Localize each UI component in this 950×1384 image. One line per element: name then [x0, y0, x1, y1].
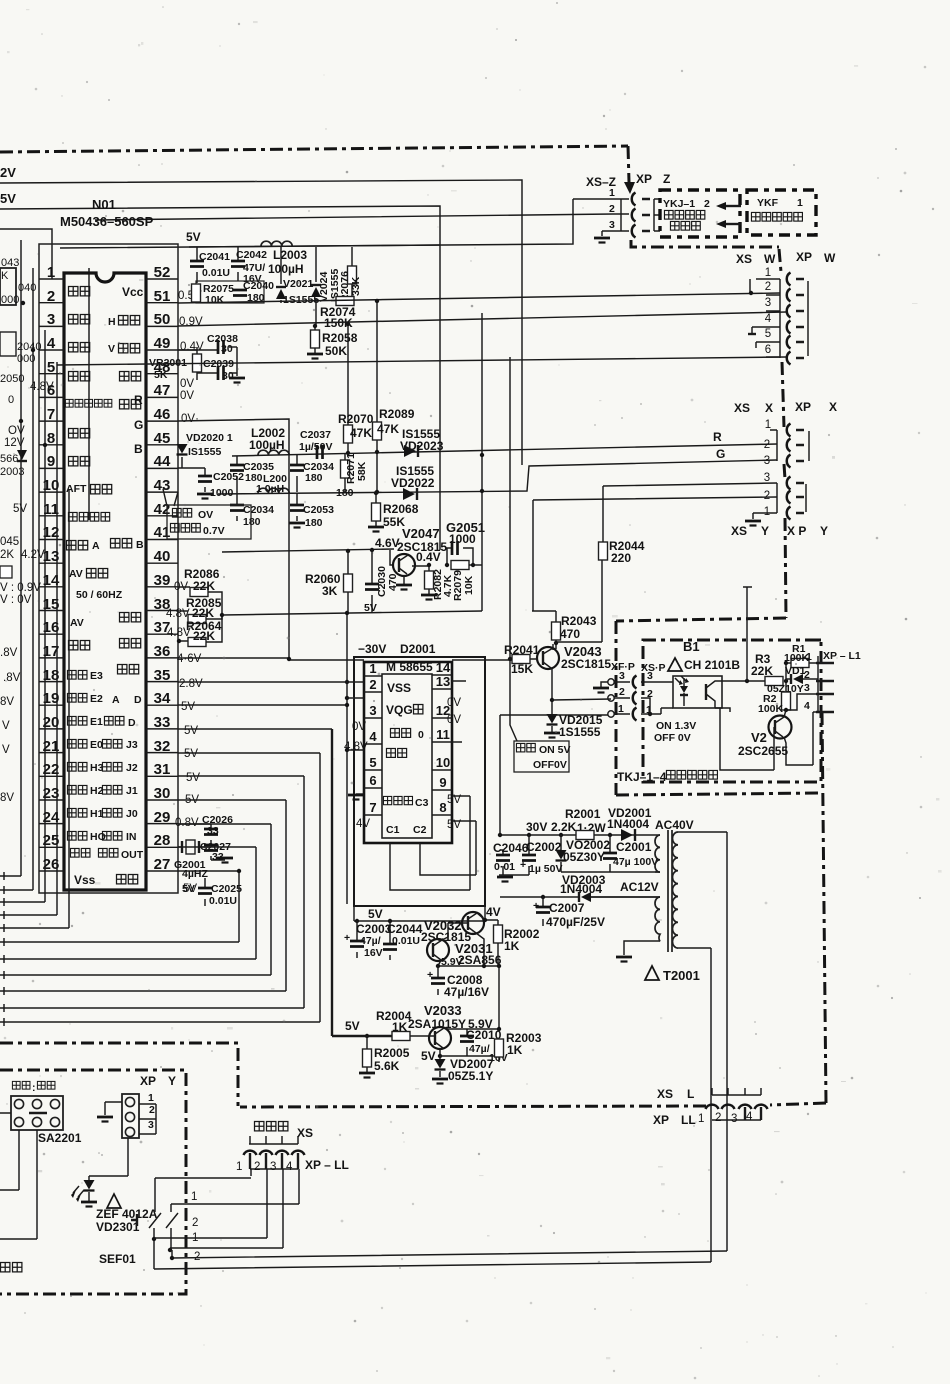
svg-text:W: W [764, 252, 776, 266]
svg-text:2: 2 [149, 1104, 155, 1116]
wire R line (to XS-X pin2) [232, 444, 777, 456]
svg-text:A: A [112, 694, 120, 706]
svg-text:11: 11 [436, 727, 450, 742]
border TKJ top [616, 618, 786, 621]
svg-text:C2040: C2040 [243, 280, 274, 292]
svg-text:47µ/: 47µ/ [469, 1043, 490, 1055]
keyboard label preset/normal [12, 1081, 30, 1089]
M58655 pin leads and numbers [364, 675, 452, 815]
svg-text:B: B [134, 442, 143, 456]
svg-text:2: 2 [764, 439, 770, 451]
svg-text:1: 1 [47, 264, 55, 281]
resistor R2064 22K [178, 615, 222, 642]
svg-text:0V·: 0V· [181, 413, 199, 425]
M58655 body [382, 674, 432, 838]
svg-text:100µH: 100µH [268, 262, 304, 276]
svg-text:50: 50 [154, 311, 171, 328]
svg-text:47µ 100V: 47µ 100V [613, 856, 658, 868]
wire 2V rail [0, 180, 522, 465]
svg-text:C2041: C2041 [199, 251, 230, 263]
svg-text:XS: XS [734, 401, 750, 415]
svg-text:2: 2 [619, 686, 625, 698]
XS-W pin4 ground stub [751, 327, 753, 333]
wire to XP-Z pin2 [95, 214, 629, 220]
N01 left pin-function labels [69, 287, 78, 296]
svg-text:OV: OV [198, 509, 213, 521]
svg-text:−30V: −30V [358, 642, 386, 656]
keyboard board label [1, 1263, 22, 1272]
zener VO2002 05Z30Y [560, 835, 562, 872]
svg-text:AC12V: AC12V [620, 880, 659, 894]
svg-text::: : [32, 1082, 36, 1094]
svg-text:000: 000 [1, 294, 19, 306]
svg-text:100µH: 100µH [249, 438, 285, 452]
svg-text:XS: XS [736, 252, 752, 266]
XP-L1 pin column [817, 656, 819, 712]
resistor R2082 4.7K [428, 565, 430, 594]
wire V2033 emitter row [440, 1056, 499, 1062]
svg-text:HO: HO [90, 831, 106, 843]
svg-text:C2042: C2042 [236, 249, 267, 261]
svg-text:.8V: .8V [0, 647, 18, 659]
svg-text:TKJ–1–4: TKJ–1–4 [617, 770, 667, 784]
transistor V2 2SC2655 [769, 716, 792, 739]
svg-text:470: 470 [387, 573, 399, 591]
capacitor C2052 [178, 468, 205, 492]
svg-text:V: V [108, 343, 115, 355]
svg-text:5V: 5V [184, 748, 198, 760]
connector XS-X pins [764, 419, 771, 467]
svg-text:R: R [713, 430, 722, 444]
wire G line (to XS-X pin3) [218, 460, 777, 494]
svg-text:47K: 47K [350, 426, 372, 440]
wire left of R2041 with callout [510, 357, 517, 741]
wire AC12V row [500, 896, 660, 898]
svg-text:7: 7 [369, 800, 376, 815]
svg-text:1µ/50V: 1µ/50V [299, 441, 333, 453]
svg-text:W: W [824, 251, 836, 265]
svg-text:10K: 10K [463, 575, 475, 595]
svg-text:V: V [2, 720, 10, 732]
svg-text:29: 29 [154, 809, 171, 826]
wire 30V rail [500, 834, 656, 836]
resistor R2074 150K [336, 297, 354, 306]
svg-text:0V: 0V [447, 714, 461, 726]
capacitor C2035 [236, 456, 238, 493]
svg-text:L: L [687, 1087, 694, 1101]
XS-Z socket arcs [632, 193, 636, 206]
svg-text:4V: 4V [486, 905, 501, 919]
svg-text:C2037: C2037 [300, 429, 331, 441]
svg-text:C2034: C2034 [243, 504, 274, 516]
svg-text:180: 180 [336, 487, 354, 499]
wire V2047 base row [222, 549, 394, 565]
svg-text:13: 13 [436, 674, 450, 689]
svg-text:0: 0 [8, 394, 14, 406]
connector XS-W pins 1-6 [765, 267, 772, 356]
svg-text:40: 40 [154, 548, 171, 565]
svg-text:2.2K: 2.2K [551, 820, 577, 834]
svg-text:470µF/25V: 470µF/25V [546, 915, 605, 929]
keypad SA2201 [11, 1096, 63, 1130]
svg-text:IN: IN [126, 831, 137, 843]
svg-text:2: 2 [609, 203, 615, 215]
capacitor C2001 47u 100V [609, 835, 611, 872]
svg-text:C2053: C2053 [303, 504, 334, 516]
ground R2058 [307, 354, 323, 359]
IC N01 M50436-560SP outer pin box [39, 244, 178, 893]
svg-text:9: 9 [47, 453, 55, 470]
svg-text:R2043: R2043 [561, 614, 597, 628]
svg-text:46: 46 [154, 406, 171, 423]
callout mute voltages [163, 489, 178, 506]
svg-text:SEF01: SEF01 [99, 1252, 136, 1266]
wire 5V rail mid [222, 611, 482, 615]
svg-text:V2047: V2047 [402, 526, 440, 541]
wire to pin row [0, 229, 52, 279]
resistor R2075 [192, 284, 201, 302]
wire 5V cluster rail [189, 245, 440, 247]
svg-text:VSS: VSS [387, 681, 411, 695]
svg-text:X: X [765, 401, 773, 415]
svg-text:E2: E2 [90, 693, 103, 705]
diode VD2001 1N4004 [621, 829, 633, 841]
svg-text:C2001: C2001 [616, 840, 652, 854]
svg-text:5: 5 [47, 359, 55, 376]
svg-text:R2058: R2058 [322, 331, 358, 345]
svg-text:470: 470 [560, 627, 580, 641]
svg-text:CH 2101B: CH 2101B [684, 658, 740, 672]
svg-text:VD2022: VD2022 [391, 476, 435, 490]
capacitor C2034 (lower) [236, 493, 238, 521]
svg-text:1: 1 [765, 419, 771, 431]
resistor R2043 470 [532, 611, 556, 649]
svg-text:+: + [520, 859, 526, 871]
svg-text:5V: 5V [184, 725, 198, 737]
transistor V2032 2SC1815 [462, 912, 484, 934]
svg-text:33: 33 [207, 825, 219, 837]
svg-text:5V: 5V [186, 230, 201, 244]
svg-text:4: 4 [47, 335, 56, 352]
svg-text:V2: V2 [751, 730, 767, 745]
svg-text:1: 1 [369, 661, 376, 676]
callout power ON/OFF voltages [514, 741, 569, 772]
diode VD2022 IS1555 [403, 488, 415, 500]
inductor L2001 [258, 488, 289, 493]
svg-text:1000: 1000 [449, 532, 476, 546]
capacitor C2010 47u 16V [466, 1029, 468, 1056]
svg-text:2: 2 [192, 1217, 198, 1229]
svg-text:5.9V: 5.9V [441, 956, 463, 968]
svg-text:C2002: C2002 [526, 840, 562, 854]
svg-text:8V: 8V [0, 792, 14, 804]
inductor L2003 [261, 241, 292, 246]
M58655 voltage labels [344, 697, 461, 831]
capacitor C2042 [237, 247, 239, 281]
XS-Z wire bundle to YKJ [654, 199, 660, 231]
arrow YKF to YKJ lower [726, 223, 741, 225]
connector XS-Y pins [764, 472, 770, 518]
resistor R2071 58K [344, 453, 346, 492]
svg-text:52: 52 [154, 264, 171, 281]
wire to XP-Z pin1 [60, 199, 573, 248]
XP-LL pin wires [155, 1169, 299, 1248]
svg-text:6: 6 [765, 344, 771, 356]
svg-text:AV: AV [69, 568, 83, 580]
svg-text:8V: 8V [0, 696, 14, 708]
T2001 secondary AC40V [655, 835, 660, 872]
svg-text:51: 51 [154, 288, 171, 305]
svg-text:J0: J0 [126, 808, 138, 820]
svg-text:1: 1 [148, 1092, 154, 1104]
svg-text:+: + [533, 900, 539, 912]
warning triangle small [107, 1194, 121, 1208]
svg-text:VD1: VD1 [785, 665, 806, 677]
svg-text:22K: 22K [751, 664, 773, 678]
M58655 pin6 ground [356, 793, 364, 795]
svg-text:T2001: T2001 [663, 968, 700, 983]
svg-text:8: 8 [439, 800, 446, 815]
arrow YKF to YKJ upper [726, 205, 741, 207]
border lower right vertical [822, 712, 826, 1103]
resistor R2076 33K (vertical label) [351, 247, 353, 300]
svg-text:R2089: R2089 [379, 407, 415, 421]
crystal G2001 4uHZ [178, 846, 211, 848]
wire N01 R output to M58655 [178, 419, 364, 660]
svg-text:180: 180 [305, 472, 323, 484]
svg-text:47µ/16V: 47µ/16V [444, 985, 489, 999]
svg-text:2.8V: 2.8V [179, 678, 203, 690]
svg-text:OV: OV [8, 425, 25, 437]
svg-text:E0: E0 [90, 739, 103, 751]
svg-text:R2005: R2005 [374, 1046, 410, 1060]
wire XS-Y pin2 to R2043 [533, 497, 777, 611]
svg-text:D: D [128, 717, 136, 729]
svg-text:3K: 3K [322, 584, 338, 598]
box around R2075/C2040 [196, 281, 264, 303]
svg-text:34: 34 [154, 690, 171, 707]
svg-text:N01: N01 [92, 197, 116, 212]
resistor R2044 220 [556, 486, 603, 642]
svg-text:ZEF 4012A: ZEF 4012A [96, 1207, 158, 1221]
svg-text:C2007: C2007 [549, 901, 585, 915]
svg-text:15K: 15K [511, 662, 533, 676]
svg-text:0.7V: 0.7V [203, 525, 225, 537]
wire labels 1 2 1 2 [191, 1191, 200, 1263]
diode VD2023 IS1555 [404, 445, 416, 457]
diode V2021 1S1555 [280, 247, 282, 303]
svg-text:XP: XP [796, 250, 812, 264]
svg-text:J1: J1 [126, 785, 138, 797]
svg-text:0.01U: 0.01U [209, 895, 237, 907]
capacitor C2046 [499, 850, 529, 875]
svg-text:2: 2 [369, 677, 376, 692]
svg-text:XP – LL: XP – LL [305, 1158, 349, 1172]
svg-text:XS·P: XS·P [641, 662, 666, 674]
svg-text:49: 49 [154, 335, 171, 352]
svg-text:1N4004: 1N4004 [607, 817, 649, 831]
wire 4V node [485, 906, 498, 925]
svg-text:4: 4 [746, 1111, 753, 1123]
svg-text:C2052: C2052 [213, 471, 244, 483]
wire to XS-W pin6 [57, 357, 786, 365]
svg-text:28: 28 [154, 832, 171, 849]
svg-text:33: 33 [154, 714, 171, 731]
svg-text:5V: 5V [13, 503, 27, 515]
svg-text:2: 2 [715, 1112, 721, 1124]
svg-text:IS1555: IS1555 [188, 446, 221, 458]
svg-text:XP: XP [636, 172, 652, 186]
capacitor C2003 47u 16V [356, 921, 358, 958]
N01 pin numbers right 52-27 [154, 264, 171, 873]
svg-text:R2001: R2001 [565, 807, 601, 821]
svg-text:6: 6 [369, 773, 376, 788]
svg-text:YKJ–1: YKJ–1 [663, 198, 695, 210]
svg-text:47µ/: 47µ/ [360, 935, 381, 947]
svg-text:5V: 5V [181, 701, 195, 713]
svg-text:22K: 22K [193, 629, 215, 643]
svg-text:36: 36 [154, 643, 171, 660]
svg-text:R2068: R2068 [383, 502, 419, 516]
svg-text:XP: XP [140, 1074, 156, 1088]
svg-text:58K: 58K [356, 461, 368, 481]
svg-text:4·6V: 4·6V [177, 653, 202, 665]
svg-text:1: 1 [618, 703, 624, 715]
resistor R3 22K [765, 677, 783, 686]
wire XS-Y pin3 to R2044 [603, 483, 777, 486]
resistor R1 100K [786, 663, 818, 692]
svg-text:1K: 1K [507, 1043, 523, 1057]
svg-text:50K: 50K [325, 344, 347, 358]
resistor R2005 5.6K [366, 1036, 368, 1072]
resistor R2079 10K [451, 561, 469, 570]
svg-text:47: 47 [154, 382, 171, 399]
transistor V2031 2SA856 [427, 939, 449, 961]
resistor R2068 55K [375, 493, 377, 526]
svg-text:45: 45 [154, 430, 171, 447]
svg-text:G: G [716, 447, 725, 461]
resistor R2004 1K [392, 1032, 410, 1041]
svg-text:0.8V: 0.8V [175, 817, 199, 829]
wire up from R3 node [743, 587, 752, 681]
svg-text:0: 0 [418, 729, 424, 741]
svg-text:Y: Y [820, 524, 828, 538]
svg-text:1: 1 [806, 651, 812, 663]
svg-text:5V: 5V [421, 1049, 436, 1063]
board TKJ-1-4 B1 box (dash-dot) [643, 640, 821, 782]
svg-text:1: 1 [797, 197, 803, 209]
svg-text:05Z30Y: 05Z30Y [563, 850, 605, 864]
svg-text:16V: 16V [364, 947, 383, 959]
svg-text:XS: XS [657, 1087, 673, 1101]
svg-text:E3: E3 [90, 670, 103, 682]
svg-text:0V: 0V [352, 721, 366, 733]
M58655 left pin wires to bus [347, 682, 364, 750]
svg-text:2: 2 [704, 198, 710, 210]
diode VD2007 05Z5.1Y [439, 1056, 441, 1077]
XS-Z pin3 wire and ground [602, 231, 629, 236]
resistor R2060 3K [347, 551, 349, 612]
capacitor C2002 1u 50V [528, 835, 530, 875]
svg-text:2: 2 [804, 669, 810, 681]
border TKJ bottom [616, 793, 822, 795]
svg-text:2: 2 [765, 281, 771, 293]
LED VD2301 ZEF4012A [89, 1138, 128, 1201]
svg-text:SA2201: SA2201 [38, 1131, 82, 1145]
M58655 C1 C2 bottom wires [390, 843, 476, 890]
board YKJ-1 (IR receiver amp board) [660, 190, 740, 237]
resistor R2085 22K [178, 592, 222, 619]
svg-text:D2001: D2001 [400, 642, 436, 656]
svg-text:C2044: C2044 [387, 922, 423, 936]
wire opto to R3 [722, 680, 765, 682]
svg-text:1: 1 [765, 267, 771, 279]
svg-text:C2025: C2025 [211, 883, 242, 895]
board YKF (IR emitter board) [747, 190, 816, 235]
optocoupler B1 CH2101B [673, 676, 722, 708]
svg-text:2SA856: 2SA856 [458, 953, 502, 967]
M58655 pin box [364, 662, 452, 843]
svg-text:XP: XP [795, 400, 811, 414]
svg-text:9: 9 [439, 775, 446, 790]
svg-text:C1: C1 [386, 824, 400, 836]
wires from SA2201 [0, 1113, 37, 1239]
svg-text:OFF 0V: OFF 0V [654, 732, 691, 744]
resistor R2070 47K [347, 324, 349, 453]
XS-W pin1 stub to pin2 [749, 279, 751, 293]
svg-text:X P: X P [787, 524, 806, 538]
resistor R2002 1K [494, 925, 503, 943]
svg-text:OUT: OUT [121, 849, 144, 861]
resistor R2058 50K [314, 325, 316, 353]
border drop to XP-Z with arrow [628, 146, 629, 182]
ground AC12V [616, 957, 632, 962]
XS-Y pin1 ground stub [753, 513, 777, 519]
svg-text:0.01U: 0.01U [392, 935, 420, 947]
svg-text:V : 0V: V : 0V [0, 594, 32, 606]
diode at left edge (pin9 area) [17, 450, 27, 460]
svg-text:1K: 1K [392, 1020, 408, 1034]
svg-text:5K: 5K [154, 369, 168, 381]
N01 pin leads [39, 279, 178, 871]
diode V2024 IS1555 (vertical label) [315, 247, 317, 326]
left edge component fragment boxes [0, 268, 16, 305]
capacitor C2034 (upper) [296, 455, 298, 492]
svg-text:R2070: R2070 [338, 412, 374, 426]
svg-text:D: D [134, 694, 142, 706]
svg-text:566: 566 [0, 453, 18, 465]
svg-text:5V: 5V [345, 1019, 360, 1033]
svg-text:4V: 4V [356, 818, 370, 830]
svg-text:5V: 5V [368, 907, 383, 921]
svg-text:0V: 0V [447, 697, 461, 709]
svg-text:YKF: YKF [757, 197, 779, 209]
svg-text:V2033: V2033 [424, 1003, 462, 1018]
svg-text:C2: C2 [413, 824, 427, 836]
svg-text:47K: 47K [377, 422, 399, 436]
svg-text:1N4004: 1N4004 [560, 882, 602, 896]
svg-text:XP – L1: XP – L1 [823, 650, 861, 662]
svg-text:10K: 10K [205, 294, 225, 306]
svg-text:4: 4 [765, 313, 772, 325]
svg-text:30V: 30V [526, 820, 547, 834]
svg-text:35: 35 [154, 667, 171, 684]
wire 5.9V row [438, 965, 499, 967]
svg-text:XS: XS [297, 1126, 313, 1140]
svg-text:0.4V: 0.4V [180, 341, 204, 353]
svg-text:3: 3 [764, 472, 770, 484]
T2001 primary wires down through XS-L [711, 832, 727, 1262]
